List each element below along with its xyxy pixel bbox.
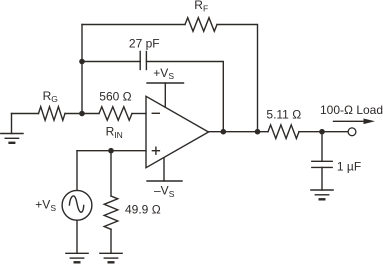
- wire op-amp output rail: [209, 131, 269, 133]
- resistor RG: [39, 107, 66, 121]
- ground under source: [66, 253, 88, 262]
- ground at RG input: [1, 114, 23, 143]
- op-amp U1: [146, 96, 209, 167]
- wire source drop: [76, 151, 78, 191]
- resistor 49.9 ohm: [104, 196, 118, 229]
- op-amp plus symbol: [152, 147, 159, 154]
- junction node output cap branch: [221, 129, 227, 135]
- wire 49.9 branch top: [110, 151, 112, 196]
- wire non-inverting rail: [77, 150, 146, 152]
- wire resistor to output terminal: [299, 131, 348, 133]
- junction node output RF branch: [255, 129, 261, 135]
- wire feedback vertical at x=82: [81, 25, 83, 114]
- wire 49.9 to ground: [110, 229, 112, 253]
- capacitor 27pF: [140, 52, 146, 70]
- op-amp minus symbol: [152, 112, 159, 114]
- wire cap rail right and drop to output: [146, 62, 223, 132]
- svg-text:RIN: RIN: [106, 124, 123, 139]
- capacitor 1uF: [312, 161, 332, 167]
- svg-text:RF: RF: [194, 0, 208, 14]
- junction node at feedback/cap: [79, 59, 85, 65]
- source VS circle: [62, 190, 92, 220]
- svg-text:49.9 Ω: 49.9 Ω: [125, 203, 161, 217]
- svg-text:560 Ω: 560 Ω: [99, 90, 131, 104]
- junction node at non-inverting input: [108, 148, 114, 154]
- svg-text:1 µF: 1 µF: [337, 159, 361, 173]
- svg-text:–VS: –VS: [154, 184, 175, 199]
- output terminal open circle: [348, 128, 356, 136]
- svg-text:+VS: +VS: [153, 66, 174, 81]
- wire cap rail left: [82, 61, 140, 63]
- resistor RF: [185, 18, 217, 32]
- ground under 49.9 ohm: [100, 253, 122, 262]
- svg-text:RG: RG: [43, 89, 58, 104]
- wire inverting input rail left segment: [12, 113, 39, 115]
- svg-text:+VS: +VS: [35, 198, 56, 213]
- svg-text:5.11 Ω: 5.11 Ω: [266, 107, 301, 121]
- +VS supply bar and lead: [147, 83, 184, 107]
- wire RIN to op-amp minus input: [132, 113, 146, 115]
- wire top rail left: [82, 24, 185, 26]
- -VS supply lead and bar: [147, 158, 182, 181]
- wire top rail right and drop to output: [217, 25, 258, 132]
- resistor 5.11 ohm: [268, 125, 299, 139]
- wire RG to RIN: [65, 113, 99, 115]
- source sine wave: [69, 196, 83, 212]
- wire source to ground: [76, 220, 78, 253]
- wire cap to ground: [321, 167, 323, 190]
- wire load cap drop: [321, 132, 323, 161]
- resistor RIN 560 ohm: [99, 107, 132, 121]
- svg-text:100-Ω Load: 100-Ω Load: [320, 103, 383, 117]
- junction node load: [319, 129, 325, 135]
- junction node at inverting input: [79, 111, 85, 117]
- svg-text:27 pF: 27 pF: [129, 37, 160, 51]
- load arrow: [334, 119, 376, 125]
- ground under 1uF cap: [311, 190, 333, 199]
